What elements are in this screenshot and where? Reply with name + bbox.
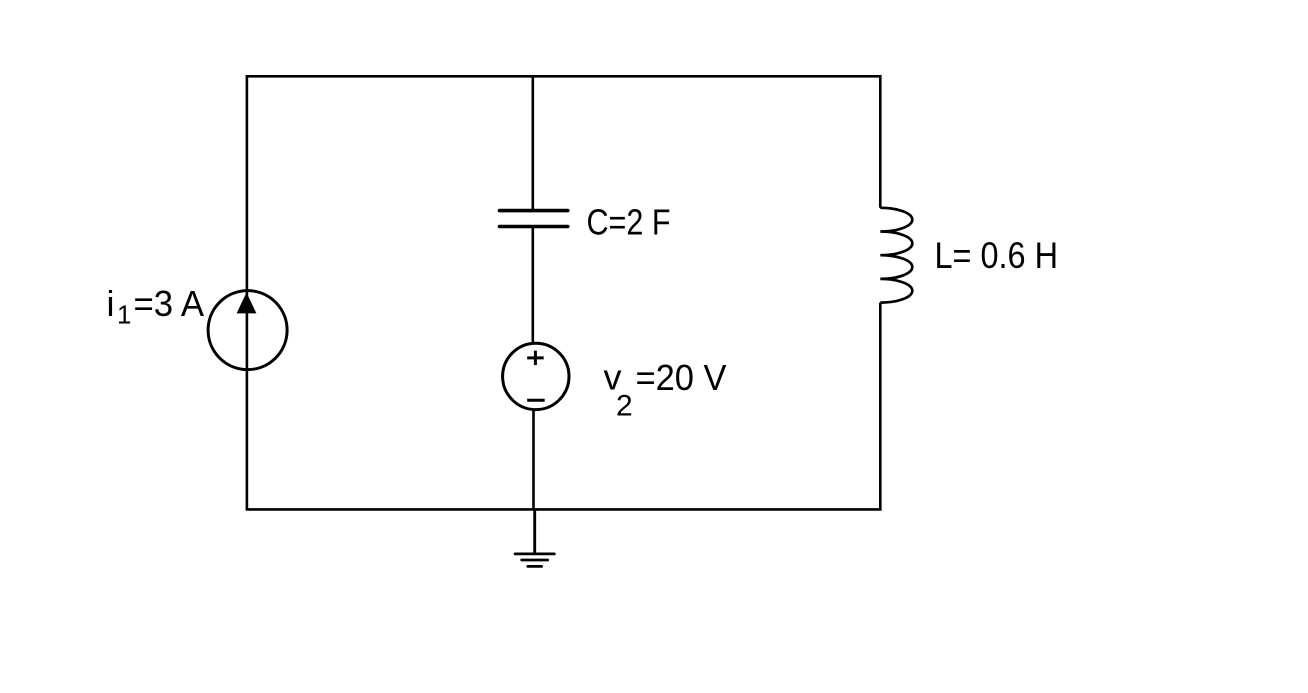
wire: bottom rail — [246, 508, 882, 511]
inductor L (4-loop coil) — [880, 208, 912, 303]
svg-text:1: 1 — [117, 300, 131, 330]
svg-text:i: i — [107, 283, 115, 324]
svg-text:=20 V: =20 V — [636, 357, 727, 398]
wire: middle branch from top rail to capacitor — [531, 76, 534, 210]
wire: stub from bottom rail to ground — [533, 509, 536, 552]
value label i1=3 A — [107, 283, 205, 330]
wire: top rail (node between i1, C branch, L) — [246, 75, 882, 78]
wire: inductor to bottom rail — [879, 303, 882, 510]
ground (three bars) — [515, 554, 554, 567]
wire: voltage source to bottom rail — [532, 409, 535, 509]
svg-text:2: 2 — [616, 390, 633, 423]
wire: left branch (through current source) — [246, 76, 249, 509]
svg-text:C=2 F: C=2 F — [587, 202, 671, 243]
svg-text:=3 A: =3 A — [134, 283, 205, 324]
value label v2=20 V — [604, 357, 727, 423]
current source i1 (circle with up arrow) — [208, 291, 287, 370]
voltage source v2 (circle with + and -) — [503, 343, 569, 409]
capacitor C (two plates) — [500, 211, 568, 227]
wire: capacitor to voltage source v2 — [531, 227, 534, 345]
wire: right branch from top rail to inductor — [879, 76, 882, 208]
svg-text:L= 0.6 H: L= 0.6 H — [935, 235, 1059, 276]
